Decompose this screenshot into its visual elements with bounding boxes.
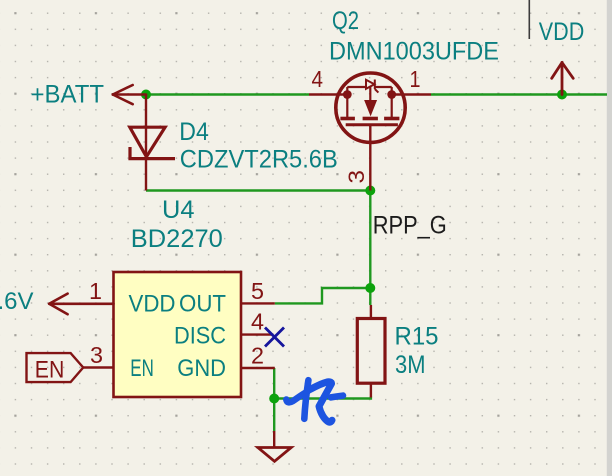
wire Q2 pin 1 to VDD and right edge [431,93,607,95]
svg-text:VDD: VDD [539,18,585,46]
svg-text:1: 1 [89,278,102,304]
gate pin 3 [369,125,371,191]
svg-text:3: 3 [90,342,103,368]
canvas right edge band [607,0,612,476]
svg-text:R15: R15 [395,323,439,351]
wire D4 cathode to gate node [146,189,370,191]
sheet border line (top right) [528,0,530,39]
svg-text:GND: GND [177,355,226,382]
source/drain stubs [346,95,348,118]
svg-text:D4: D4 [179,118,209,146]
substrate link [369,87,371,100]
body diode [366,80,374,89]
net port arrow +BATT [113,85,146,104]
power symbol VDD [552,63,574,95]
svg-text:EN: EN [130,355,154,382]
hierarchical label EN [27,353,84,382]
pin 4 stub [309,93,347,95]
diode D4 (zener) [130,95,175,191]
svg-text:VDD: VDD [129,290,176,317]
ground symbol [258,431,291,461]
pin 5 stub [241,302,275,304]
body diode rail [346,87,348,95]
wire +BATT to Q2 pin 4 [146,93,309,95]
pin 2 stub [241,367,275,369]
svg-text:4: 4 [251,308,264,334]
resistor R15 [357,305,385,398]
internal junction dots [343,90,352,99]
pin 3 stub [83,366,113,368]
svg-text:5: 5 [251,278,264,304]
svg-text:3: 3 [344,170,369,184]
svg-text:3M: 3M [395,351,426,379]
svg-text:U4: U4 [162,196,195,224]
pin 4 stub [241,333,273,335]
junction at ground net [269,394,279,404]
svg-text:OUT: OUT [179,290,226,317]
no-connect X on pin 4 [265,328,284,347]
svg-text:.6V: .6V [0,288,34,315]
channel bars [340,117,355,121]
wire RPP_G node to R15 top [369,288,371,305]
svg-text:4: 4 [312,66,324,92]
svg-text:2: 2 [251,343,264,369]
junction at RPP_G / R15 [365,283,375,293]
svg-text:BD2270: BD2270 [131,225,223,253]
blue ink annotation [286,380,343,422]
svg-text:RPP_G: RPP_G [373,211,447,239]
transistor Q2 (dual MOSFET) [309,73,431,191]
svg-text:+BATT: +BATT [31,81,105,109]
pin 1 stub [392,93,431,95]
wire U4 pin 5 to RPP_G node [275,288,371,303]
svg-text:Q2: Q2 [332,7,359,35]
wire gate node down to RPP_G node [369,191,371,289]
substrate arrow [365,101,376,115]
pin 1 stub with arrow (VDD in) [49,294,113,315]
wire U4 pin 2 down to ground [273,368,275,431]
gate plate [346,123,398,126]
junction at VDD [557,90,567,100]
svg-text:CDZVT2R5.6B: CDZVT2R5.6B [180,145,338,173]
svg-text:EN: EN [35,357,65,384]
junction at +BATT / D4 [141,90,151,100]
junction at gate node [365,186,375,196]
wire R15 bottom to ground junction [274,397,371,399]
IC U4 body [114,272,242,397]
svg-text:DISC: DISC [174,323,226,350]
svg-text:DMN1003UFDE: DMN1003UFDE [329,38,499,66]
svg-text:1: 1 [410,66,421,92]
